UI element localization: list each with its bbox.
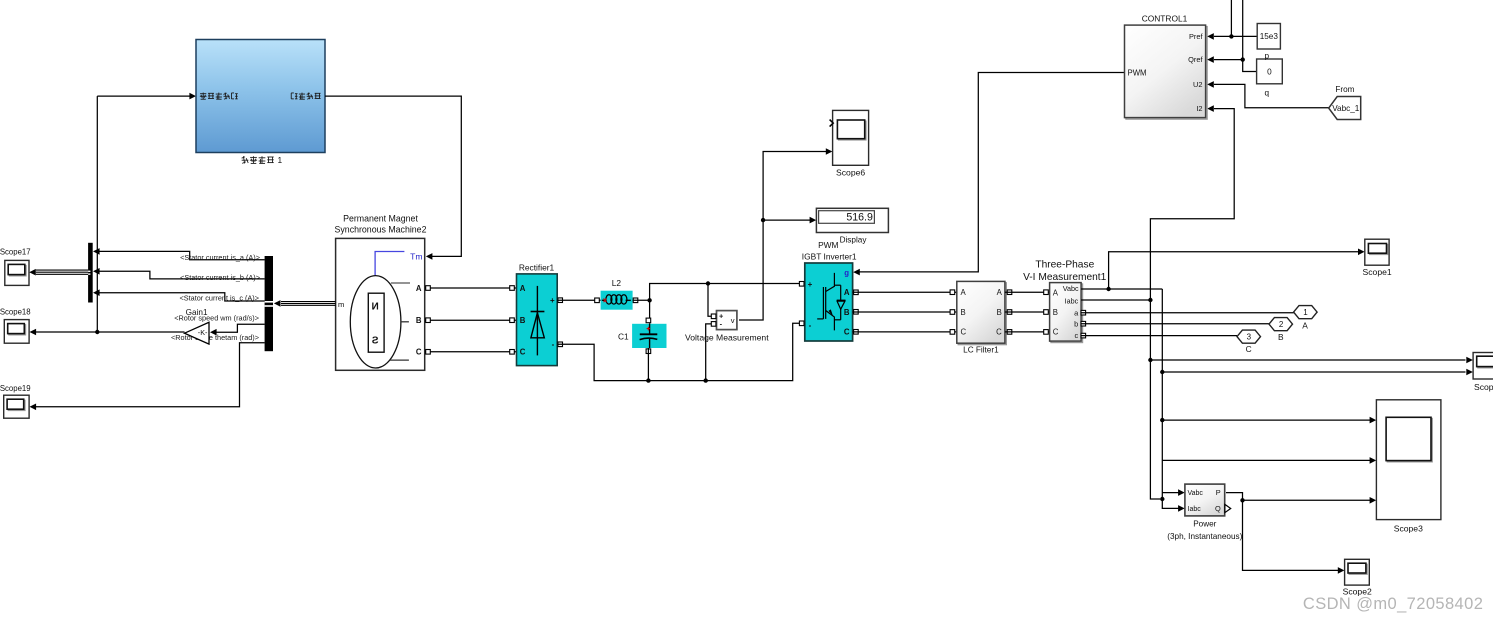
node: junction to VM +	[706, 281, 710, 285]
svg-text:A: A	[416, 284, 422, 293]
wire: Iabc trunk down	[1150, 300, 1160, 499]
svg-text:c: c	[1074, 331, 1078, 340]
wire: branch to Scope3 input 3	[1243, 499, 1371, 501]
svg-text:v: v	[731, 316, 735, 325]
svg-text:CONTROL1: CONTROL1	[1142, 13, 1188, 23]
svg-text:Qref: Qref	[1188, 55, 1203, 64]
svg-text:Pref: Pref	[1189, 32, 1204, 41]
wire: vertical feedback riser	[96, 96, 98, 332]
wire: riser to top edge Qref	[1242, 0, 1244, 60]
wire: LC C to VI C	[1007, 330, 1012, 335]
svg-text:B: B	[1278, 332, 1284, 342]
svg-text:V-I Measurement1: V-I Measurement1	[1023, 272, 1107, 283]
svg-text:p: p	[1265, 52, 1270, 61]
svg-text:-K-: -K-	[198, 328, 208, 337]
svg-text:-: -	[552, 340, 555, 349]
wire: L2 out to DC+ node	[633, 299, 650, 301]
svg-text:Scope3: Scope3	[1394, 524, 1423, 534]
node: junction at power inputs	[1160, 497, 1164, 501]
node: DC- at C1	[646, 378, 650, 382]
node: branch to Scope3 input 1	[1160, 418, 1164, 422]
node: trunk branch to edge scope 2	[1160, 370, 1164, 374]
wire: C1 bottom to DC- rail	[647, 348, 649, 381]
svg-text:g: g	[844, 268, 849, 277]
wire: rectifier - rail to inverter -	[557, 323, 805, 380]
svg-text:C: C	[520, 348, 526, 357]
wire+label: rotor angle thetam	[36, 343, 265, 407]
svg-text:Q: Q	[1215, 504, 1221, 513]
svg-text:<Stator current is_a (A)>: <Stator current is_a (A)>	[180, 253, 260, 262]
scope: Scope3	[1376, 400, 1441, 520]
wire: stub to VM +	[708, 284, 717, 317]
wire: a to tag 1	[1081, 312, 1294, 314]
wire: branch to Display	[763, 219, 811, 221]
block: IGBT inverter cyan	[805, 263, 853, 341]
block: Voltage Measurement	[717, 311, 737, 330]
svg-text:Three-Phase: Three-Phase	[1035, 260, 1094, 271]
svg-text:Scope6: Scope6	[836, 167, 865, 177]
block: Display 516.9	[816, 208, 888, 232]
wire: CONTROL1 PWM to inverter g	[859, 73, 1125, 272]
wire: to Scope1	[1109, 252, 1359, 289]
svg-text:Scope18: Scope18	[0, 308, 31, 317]
svg-text:B: B	[520, 316, 526, 325]
scope: right edge Scope	[1473, 353, 1493, 380]
svg-text:A: A	[520, 284, 526, 293]
svg-text:Synchronous Machine2: Synchronous Machine2	[335, 224, 427, 234]
wire: inverter B to LC B	[853, 311, 957, 313]
svg-text:Scope1: Scope1	[1363, 267, 1392, 277]
rectifier diode icon	[536, 286, 538, 356]
svg-text:Vabc: Vabc	[1063, 284, 1079, 293]
wire: c to tag 3	[1081, 335, 1237, 337]
wire: feedback speed to gas turbine input	[97, 95, 191, 97]
node: Pref riser junction	[1229, 34, 1233, 38]
wire: DC+ rail to inverter +	[650, 284, 805, 301]
PMSM rotor ellipse	[350, 276, 401, 368]
node: DC- at VM stub	[704, 378, 708, 382]
wire: inverter A to LC A	[853, 291, 957, 293]
svg-text:B: B	[961, 308, 966, 317]
svg-text:Power: Power	[1193, 519, 1216, 528]
PMSM m bus to bus selector	[281, 301, 336, 303]
wire: riser to top edge Pref	[1230, 0, 1232, 36]
wire: gain output to Scope18	[36, 331, 185, 333]
svg-text:+: +	[550, 296, 555, 305]
svg-text:IGBT Inverter1: IGBT Inverter1	[802, 251, 857, 261]
wire: LC B to VI B	[1007, 310, 1012, 315]
svg-text:0: 0	[1267, 67, 1272, 76]
wire: branch to Scope3 input 2	[1162, 459, 1370, 461]
svg-text:A: A	[1302, 320, 1308, 330]
svg-text:Tm: Tm	[410, 252, 422, 262]
port label: turbine input speed (CJK)	[200, 93, 207, 100]
port label: turbine output torque (CJK)	[291, 93, 297, 99]
svg-text:Rectifier1: Rectifier1	[519, 262, 555, 272]
svg-text:C: C	[416, 348, 422, 357]
wire: rectifier + to L2	[557, 299, 600, 301]
wire: PMSM C to Rectifier C	[425, 351, 517, 353]
Power Q unconnected chevron	[1225, 504, 1231, 512]
svg-text:Scope17: Scope17	[0, 247, 31, 256]
node: Qref riser junction	[1241, 57, 1245, 61]
mux bar	[88, 243, 93, 303]
svg-text:(3ph, Instantaneous): (3ph, Instantaneous)	[1167, 532, 1242, 541]
svg-text:Voltage Measurement: Voltage Measurement	[685, 333, 769, 343]
scope: Scope2	[1345, 559, 1370, 585]
svg-text:C1: C1	[618, 331, 629, 341]
block: Permanent Magnet Synchronous Machine2	[336, 238, 425, 370]
svg-text:A: A	[961, 288, 967, 297]
CONTROL1 input arrows	[1207, 33, 1214, 40]
wire: I2 riser from Iabc	[1150, 109, 1234, 300]
node: DC+ junction	[647, 298, 651, 302]
wire+label: stator current is_c	[100, 293, 265, 301]
node: Iabc junction	[1148, 298, 1152, 302]
svg-text:-: -	[809, 321, 812, 330]
wire: Pref from 15e3	[1214, 35, 1257, 37]
wire: b to tag 2	[1081, 323, 1269, 325]
svg-text:m: m	[338, 300, 344, 309]
svg-text:Scope: Scope	[1474, 382, 1493, 392]
svg-text:C: C	[996, 328, 1002, 337]
port tag: 1 A	[1294, 306, 1318, 319]
svg-text:q: q	[1265, 88, 1270, 97]
svg-text:N: N	[372, 302, 379, 313]
svg-text:Permanent Magnet: Permanent Magnet	[343, 213, 418, 223]
svg-text:C: C	[844, 328, 850, 337]
inverter ports	[799, 282, 804, 287]
scope: Scope1	[1365, 239, 1389, 265]
wire: VM v out up to Scope6	[739, 152, 827, 321]
svg-text:B: B	[1053, 308, 1058, 317]
wire: LC A to VI A	[1007, 290, 1012, 295]
svg-text:P: P	[1216, 488, 1221, 497]
wire: branch to edge scope input 1	[1150, 359, 1465, 361]
wire: PMSM A to Rectifier A	[425, 287, 517, 289]
svg-text:U2: U2	[1193, 80, 1202, 89]
svg-text:LC Filter1: LC Filter1	[963, 346, 999, 355]
L2 coil icon	[602, 299, 606, 301]
svg-text:B: B	[997, 308, 1002, 317]
svg-text:I2: I2	[1196, 104, 1202, 113]
svg-text:S: S	[372, 335, 379, 346]
svg-text:b: b	[1074, 319, 1078, 328]
svg-text:C: C	[1053, 328, 1059, 337]
PMSM stator leads	[391, 282, 410, 284]
wire: PMSM B to Rectifier B	[425, 319, 517, 321]
C1 capacitor icon	[649, 324, 651, 335]
PMSM blue Tm line	[375, 252, 404, 276]
wire: Iabc out	[1081, 299, 1150, 301]
block: V-I measurement	[1051, 284, 1083, 343]
wire: Vabc out	[1081, 288, 1162, 290]
wire: node down to C1	[649, 300, 651, 324]
wire: branch to Power Vabc	[1162, 492, 1181, 494]
svg-text:<Stator current is_c (A)>: <Stator current is_c (A)>	[180, 294, 260, 303]
svg-text:From: From	[1335, 85, 1354, 94]
svg-text:Gain1: Gain1	[186, 308, 208, 317]
IGBT and diode icon	[822, 287, 824, 319]
node: junction gain output feedback	[95, 330, 99, 334]
port tag: 2 B	[1269, 318, 1293, 331]
wire+label: stator current is_b	[100, 271, 265, 279]
node: Iabc branch to edge scope 1	[1148, 358, 1152, 362]
svg-text:A: A	[997, 288, 1003, 297]
wire: stub to VM -	[706, 324, 717, 381]
svg-text:1: 1	[278, 155, 283, 165]
node: branch to Display	[761, 218, 765, 222]
wire: P output to Scope2	[1226, 493, 1339, 571]
svg-text:15e3: 15e3	[1260, 32, 1279, 41]
wire: Qref from 0	[1214, 60, 1257, 72]
svg-text:Vabc: Vabc	[1188, 490, 1204, 497]
svg-text:3: 3	[1247, 333, 1252, 342]
wire: U2 from From tag	[1214, 84, 1329, 107]
svg-text:PWM: PWM	[1128, 68, 1147, 77]
constant: 0 q	[1257, 59, 1283, 84]
svg-text:A: A	[844, 288, 850, 297]
wire: branch to Scope3 input 1	[1162, 419, 1370, 421]
wire: turbine output to PMSM Tm	[325, 96, 461, 256]
subsystem: gas turbine (CJK label)	[196, 40, 325, 153]
svg-text:PWM: PWM	[818, 240, 838, 250]
bus wire: mux to Scope17	[36, 269, 88, 271]
node: P branch to Scope3 input 3	[1240, 498, 1244, 502]
svg-text:<Stator current is_b (A)>: <Stator current is_b (A)>	[180, 273, 260, 282]
svg-text:+: +	[808, 280, 813, 289]
wire: inverter C to LC C	[853, 331, 957, 333]
node: Vabc junction to Scope1	[1106, 287, 1110, 291]
svg-text:Iabc: Iabc	[1188, 506, 1202, 513]
bus selector bar	[265, 256, 273, 351]
PMSM magnet rect with mirrored N S	[368, 293, 384, 352]
port tag: 3 C	[1237, 330, 1261, 343]
label: gas turbine name (CJK)+1	[242, 156, 249, 163]
svg-text:Vabc_1: Vabc_1	[1332, 104, 1360, 113]
svg-text:B: B	[416, 316, 422, 325]
svg-text:C: C	[961, 328, 967, 337]
constant: 15e3 p	[1257, 24, 1280, 50]
svg-text:Display: Display	[840, 236, 868, 245]
svg-text:Iabc: Iabc	[1065, 297, 1079, 306]
wire+label: stator current is_a	[100, 251, 265, 259]
svg-text:L2: L2	[612, 278, 622, 288]
wire: Vabc trunk down to Power Iabc	[1162, 289, 1181, 508]
svg-text:<Rotor angle thetam (rad)>: <Rotor angle thetam (rad)>	[171, 333, 259, 342]
block: LC Filter1	[958, 283, 1006, 345]
svg-text:CSDN @m0_72058402: CSDN @m0_72058402	[1303, 595, 1483, 613]
scope: Scope6	[833, 110, 869, 165]
wire: branch to edge scope input 2	[1162, 371, 1465, 373]
wire+label: rotor speed wm	[216, 324, 265, 332]
svg-text:B: B	[844, 308, 850, 317]
svg-text:A: A	[1053, 289, 1059, 298]
svg-text:Scope19: Scope19	[0, 384, 31, 393]
svg-text:1: 1	[1303, 308, 1308, 317]
svg-text:C: C	[1246, 344, 1252, 354]
svg-text:516.9: 516.9	[846, 212, 873, 224]
svg-text:2: 2	[1279, 320, 1284, 329]
block: Power 3ph Instantaneous	[1185, 484, 1225, 516]
